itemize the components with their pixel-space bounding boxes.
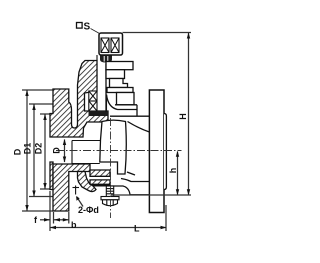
svg-text:D: D xyxy=(52,147,62,154)
svg-text:D: D xyxy=(13,148,23,155)
svg-text:D1: D1 xyxy=(23,143,33,155)
svg-text:2-Φd: 2-Φd xyxy=(78,205,99,215)
svg-text:S: S xyxy=(84,22,91,33)
svg-text:H: H xyxy=(178,113,188,120)
svg-text:D2: D2 xyxy=(34,143,44,155)
svg-text:L: L xyxy=(134,224,140,234)
svg-text:h: h xyxy=(168,168,178,174)
svg-text:b: b xyxy=(71,220,77,230)
